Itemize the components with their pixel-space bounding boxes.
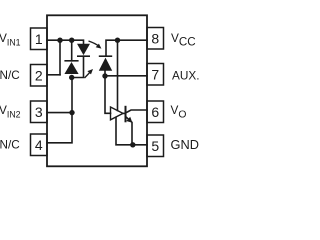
node: pin3 junction <box>69 110 74 115</box>
node: emitter GND junction <box>130 142 135 147</box>
wire pin3 stub <box>47 112 72 114</box>
LED D2 (anode down, pointing up) <box>64 62 78 74</box>
op-amp U2 amplifier triangle <box>111 107 124 120</box>
svg-text:GND: GND <box>171 137 199 152</box>
pin 5 box <box>147 135 164 157</box>
svg-text:N/C: N/C <box>0 139 20 152</box>
svg-text:4: 4 <box>35 137 43 153</box>
node: photodiode anode junction <box>102 73 107 78</box>
pin 6 box <box>147 101 164 123</box>
transistor Q1 base bar <box>125 107 127 122</box>
wire transistor collector to pin6 <box>126 110 148 113</box>
svg-text:1: 1 <box>35 31 43 47</box>
wire LED D1 cathode down to junction <box>72 56 84 77</box>
svg-text:6: 6 <box>151 104 159 120</box>
node: Vcc rail junction <box>115 38 120 43</box>
wire transistor emitter to GND rail <box>126 117 133 145</box>
pin 7 box <box>147 64 164 86</box>
IC body U1 <box>47 15 147 166</box>
svg-text:7: 7 <box>151 67 159 83</box>
svg-text:3: 3 <box>35 104 43 120</box>
wire rail pin1-pin2 <box>59 40 61 75</box>
wire amp input from photodiode node <box>105 76 111 114</box>
wire amplifier ground to GND rail <box>116 117 147 145</box>
light arrow upper <box>89 41 100 46</box>
wire LED D2 cathode up to pin1 rail <box>71 40 73 61</box>
LED D1 (anode up, pointing down) <box>77 44 90 55</box>
svg-text:8: 8 <box>151 31 159 47</box>
wire pin2 stub <box>47 74 60 76</box>
pin 8 box <box>147 28 164 50</box>
node: LED midpoint junction <box>69 75 74 80</box>
svg-text:AUX.: AUX. <box>172 68 200 82</box>
svg-text:5: 5 <box>151 138 159 154</box>
pin 4 box <box>31 134 48 156</box>
pin 2 box <box>31 65 48 87</box>
wire pin1 to LED anodes <box>47 40 84 44</box>
svg-text:N/C: N/C <box>0 69 20 82</box>
node: LED D2 cathode junction <box>69 38 74 43</box>
node: pin1 rail junction <box>57 38 62 43</box>
wire amp output to transistor base <box>123 112 126 114</box>
transistor Q1 emitter arrowhead <box>126 117 132 123</box>
wire Vcc rail down to amplifier top <box>117 40 119 110</box>
pin 3 box <box>31 101 48 123</box>
wire photodiode anode to pin7 AUX <box>105 71 147 76</box>
photodiode D3 (pointing up) <box>99 58 112 71</box>
light arrow lower <box>85 72 91 78</box>
wire LED junction down to pin3 <box>71 78 73 113</box>
pin 1 box <box>31 28 48 50</box>
wire photodiode cathode to Vcc top rail <box>106 40 147 56</box>
wire pin4 stub up to pin3 node <box>47 113 72 143</box>
svg-text:2: 2 <box>35 68 43 84</box>
